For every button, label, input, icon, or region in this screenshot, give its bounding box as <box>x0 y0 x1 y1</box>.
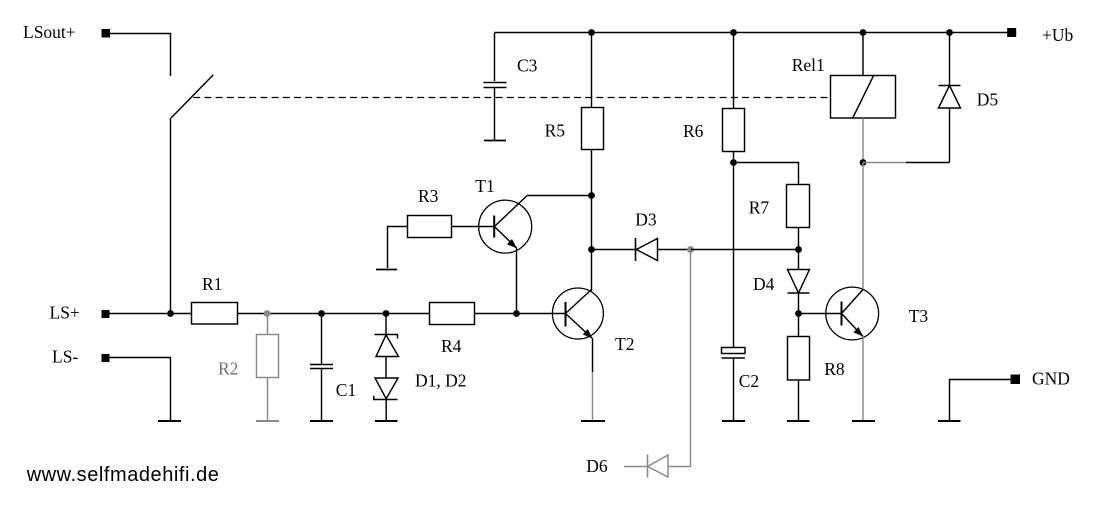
node R6/R7 junction <box>730 159 737 166</box>
wire T2 emitter lower (grey) <box>592 372 594 420</box>
diode D5 <box>949 33 951 86</box>
svg-text:C2: C2 <box>739 371 759 391</box>
node R7/D4 junction <box>795 246 802 253</box>
svg-text:LS-: LS- <box>52 347 78 367</box>
ground bar GND <box>938 420 961 422</box>
svg-text:R1: R1 <box>202 274 222 294</box>
svg-text:LS+: LS+ <box>50 302 80 322</box>
wire T3 collector (grey) <box>862 163 864 290</box>
svg-text:R2: R2 <box>218 359 238 379</box>
ground bar T2 <box>581 420 605 422</box>
node D4/R8 junction <box>795 310 802 317</box>
ground bar C1 <box>310 420 333 422</box>
capacitor C1 <box>321 314 323 364</box>
wire T3 base <box>799 313 842 315</box>
svg-text:R6: R6 <box>683 121 704 141</box>
ground bar T3 <box>852 420 875 422</box>
wire LS+ rail <box>110 313 566 315</box>
node C1 <box>318 310 325 317</box>
svg-text:D5: D5 <box>977 90 999 110</box>
transistor T3 <box>826 287 879 340</box>
svg-text:C3: C3 <box>517 56 538 76</box>
wire R6 junction to R7 <box>734 163 799 185</box>
wire T3 emitter to ground (grey) <box>862 337 864 421</box>
svg-text:D3: D3 <box>635 209 657 229</box>
transistor T2 <box>552 288 603 339</box>
node T1 emitter junction <box>513 310 520 317</box>
diode D1 <box>385 314 387 335</box>
svg-text:T1: T1 <box>475 176 494 196</box>
svg-text:R7: R7 <box>749 198 770 218</box>
ground bar D2 <box>375 420 398 422</box>
resistor R2 (grey) <box>256 314 279 422</box>
ground bar R8 <box>787 420 810 422</box>
node relay/T3/D5 junction <box>860 159 867 166</box>
node D1 <box>383 310 390 317</box>
svg-text:D4: D4 <box>753 274 775 294</box>
svg-text:R8: R8 <box>824 359 845 379</box>
wire LS- to ground <box>110 358 171 421</box>
capacitor C3 <box>494 33 496 82</box>
svg-text:+Ub: +Ub <box>1042 25 1074 45</box>
wire LSout+ to switch <box>110 34 171 76</box>
relay Rel1 coil <box>831 76 896 119</box>
node D3 anode junction <box>588 246 595 253</box>
svg-text:R5: R5 <box>545 120 566 140</box>
terminal LSout+ <box>102 29 111 38</box>
svg-text:Rel1: Rel1 <box>792 55 825 75</box>
resistor R3 <box>388 227 408 269</box>
capacitor C2 <box>722 348 746 354</box>
resistor R7 <box>787 185 810 228</box>
resistor R5 <box>591 33 593 108</box>
svg-text:T2: T2 <box>615 334 634 354</box>
diode D6 (grey) <box>648 455 668 477</box>
wire GND <box>950 380 1011 421</box>
node D3/grey net junction (grey) <box>687 246 694 253</box>
wire top rail +Ub <box>495 32 1012 34</box>
resistor R4 <box>430 303 475 325</box>
resistor R1 <box>192 303 238 325</box>
transistor T1 <box>479 200 532 253</box>
wire switch lower contact down to LS+ node <box>170 118 172 314</box>
node rail/R6 <box>730 29 737 36</box>
terminal LS+ <box>102 310 110 318</box>
svg-text:R4: R4 <box>441 336 462 356</box>
resistor R8 <box>798 314 800 337</box>
node rail/D5 <box>946 29 953 36</box>
svg-text:T3: T3 <box>909 306 929 326</box>
mechanical link dashed line to relay <box>193 97 830 99</box>
svg-text:LSout+: LSout+ <box>23 22 76 42</box>
svg-text:GND: GND <box>1032 369 1070 389</box>
svg-text:www.selfmadehifi.de: www.selfmadehifi.de <box>26 464 220 486</box>
ground bar LS- <box>158 420 181 422</box>
wire relay coil bottom (grey) <box>862 118 864 163</box>
node rail/R5 <box>588 29 595 36</box>
node T1 collector junction <box>588 192 595 199</box>
node rail/relay <box>860 29 867 36</box>
terminal GND <box>1011 375 1021 385</box>
diode D3 <box>592 249 636 251</box>
terminal LS- <box>102 354 110 362</box>
terminal +Ub <box>1007 28 1016 37</box>
resistor R6 <box>733 33 735 109</box>
switch S1 blade <box>171 75 213 118</box>
ground bar C2 <box>722 420 745 422</box>
node switch/LS+ <box>167 310 174 317</box>
svg-text:D1, D2: D1, D2 <box>415 371 467 391</box>
diode D4 <box>798 250 800 270</box>
svg-text:D6: D6 <box>586 456 608 476</box>
wire grey net down to D6 <box>624 250 691 478</box>
svg-text:C1: C1 <box>336 380 356 400</box>
diode D2 <box>375 378 398 399</box>
wire D3 junction to R7/D4 <box>691 249 799 251</box>
node R2 (grey) <box>264 310 271 317</box>
svg-text:R3: R3 <box>418 186 439 206</box>
wire junction to D5 (left half grey) <box>863 162 906 164</box>
